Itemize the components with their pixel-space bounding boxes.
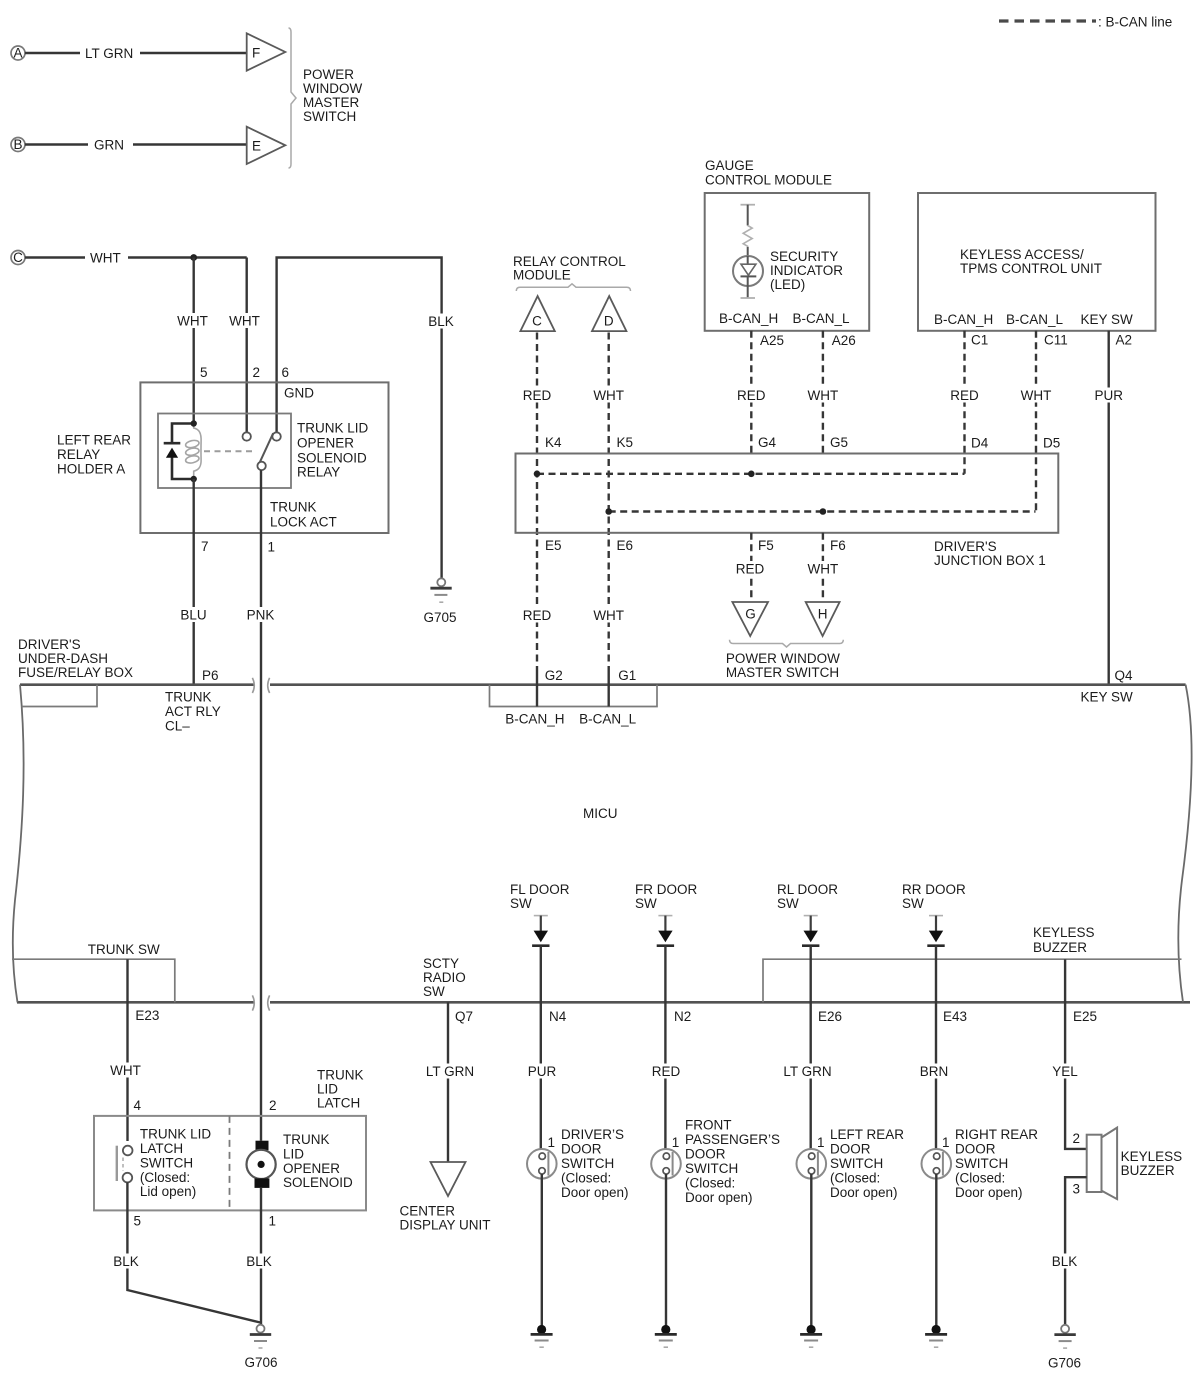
relay contact pin 2 — [243, 432, 251, 440]
brace power window master switch — [289, 28, 297, 168]
door switch input RL — [802, 916, 819, 946]
svg-text:Lid open): Lid open) — [140, 1184, 196, 1199]
label LEFT REAR RELAY HOLDER A — [57, 433, 131, 477]
svg-text:G2: G2 — [545, 668, 563, 683]
wire B-CAN WHT from triangle D to junction box K5 — [592, 333, 626, 673]
node dot relay coil bottom — [191, 476, 197, 482]
svg-text:HOLDER A: HOLDER A — [57, 462, 125, 477]
MICU top middle connector tab G — [490, 685, 658, 707]
MICU box bottom edge — [17, 1001, 1190, 1004]
svg-text:WHT: WHT — [808, 562, 839, 577]
wire B-CAN RED from triangle C to junction box K4 — [522, 333, 552, 673]
svg-text:LT GRN: LT GRN — [426, 1064, 474, 1079]
svg-text:G5: G5 — [830, 435, 848, 450]
svg-text:K4: K4 — [545, 435, 562, 450]
connector C — [11, 250, 25, 265]
ground left rear door switch — [800, 1325, 822, 1347]
label KEYLESS ACCESS TPMS CONTROL UNIT — [960, 247, 1102, 276]
svg-text:RELAY: RELAY — [57, 447, 100, 462]
svg-text:SW: SW — [902, 896, 924, 911]
svg-text:RED: RED — [736, 562, 765, 577]
label FL DOOR SW — [510, 882, 570, 911]
wire driver's door switch to ground — [541, 1174, 543, 1325]
wire B-CAN WHT A26 to G5 — [806, 331, 840, 454]
label TRUNK LID LATCH — [317, 1068, 364, 1111]
svg-text:CENTER: CENTER — [400, 1204, 456, 1219]
svg-text:DRIVER'S: DRIVER'S — [18, 637, 81, 652]
svg-text:MICU: MICU — [583, 806, 618, 821]
svg-text:G4: G4 — [758, 435, 777, 450]
label DRIVER'S DOOR SWITCH (Closed: Door open) — [561, 1127, 629, 1200]
svg-text:G: G — [745, 607, 756, 622]
svg-text:5: 5 — [200, 365, 208, 380]
wire right rear door switch to ground — [935, 1174, 937, 1325]
svg-text:DOOR: DOOR — [830, 1142, 871, 1157]
svg-text:LEFT REAR: LEFT REAR — [830, 1127, 904, 1142]
svg-text:BLU: BLU — [180, 608, 206, 623]
svg-text:LID: LID — [317, 1082, 338, 1097]
svg-text:TPMS CONTROL UNIT: TPMS CONTROL UNIT — [960, 261, 1102, 276]
svg-text:A25: A25 — [760, 333, 784, 348]
svg-text:FUSE/RELAY BOX: FUSE/RELAY BOX — [18, 665, 133, 680]
wire G1 solid stub — [608, 672, 610, 707]
svg-text:WHT: WHT — [808, 388, 839, 403]
wire B-CAN WHT F6 to triangle H — [806, 533, 840, 601]
svg-text:(LED): (LED) — [770, 277, 805, 292]
svg-text:KEYLESS ACCESS/: KEYLESS ACCESS/ — [960, 247, 1084, 262]
label POWER WINDOW MASTER SWITCH bottom — [726, 651, 840, 680]
wire PUR N4 to driver's door switch — [527, 946, 557, 1154]
svg-text:B: B — [13, 137, 22, 152]
svg-text:CL–: CL– — [165, 719, 190, 734]
svg-text:MASTER SWITCH: MASTER SWITCH — [726, 665, 839, 680]
svg-text:DISPLAY UNIT: DISPLAY UNIT — [400, 1218, 491, 1233]
wire B-CAN RED A25 to G4 — [736, 331, 766, 454]
svg-text:SWITCH: SWITCH — [140, 1155, 193, 1170]
right rear door switch SW4 — [922, 1149, 952, 1179]
svg-text:F6: F6 — [830, 538, 846, 553]
wire PNK relay pin 1 through MICU to solenoid — [245, 470, 277, 1141]
node junction dot on C wire — [190, 254, 197, 261]
svg-text:1: 1 — [548, 1135, 556, 1150]
svg-text:RED: RED — [737, 388, 766, 403]
svg-text:2: 2 — [253, 365, 261, 380]
svg-text:BLK: BLK — [1052, 1254, 1078, 1269]
wire RED N2 to front passenger's door switch — [651, 946, 681, 1154]
left rear door switch SW3 — [797, 1149, 827, 1179]
svg-text:D4: D4 — [971, 436, 989, 451]
door switch input RR — [927, 916, 944, 946]
svg-text:CONTROL MODULE: CONTROL MODULE — [705, 173, 832, 188]
svg-text:C11: C11 — [1044, 333, 1068, 348]
label GAUGE CONTROL MODULE — [705, 158, 832, 188]
svg-text:WHT: WHT — [177, 314, 208, 329]
svg-text:SW: SW — [510, 896, 532, 911]
svg-text:F: F — [252, 46, 260, 61]
svg-text:D: D — [604, 314, 614, 329]
svg-text:B-CAN_H: B-CAN_H — [505, 712, 564, 727]
terminal triangle G — [732, 602, 768, 636]
svg-text:SW: SW — [423, 984, 445, 999]
svg-text:A: A — [13, 46, 22, 61]
svg-text:KEY SW: KEY SW — [1081, 690, 1134, 705]
svg-text:E25: E25 — [1073, 1009, 1097, 1024]
svg-text:LATCH: LATCH — [317, 1096, 360, 1111]
svg-text:FL DOOR: FL DOOR — [510, 882, 570, 897]
wire G2 solid stub — [536, 672, 538, 707]
bracket over power window master switch — [730, 640, 844, 647]
svg-text:TRUNK: TRUNK — [270, 500, 317, 515]
svg-text:INDICATOR: INDICATOR — [770, 263, 843, 278]
svg-text:DOOR: DOOR — [955, 1142, 996, 1157]
label RL DOOR SW — [777, 882, 838, 911]
ground G706 right — [1048, 1325, 1081, 1371]
svg-text:GRN: GRN — [94, 138, 124, 153]
svg-text:RED: RED — [523, 608, 552, 623]
svg-text:E23: E23 — [135, 1008, 159, 1023]
diode D1 across relay coil — [164, 443, 181, 458]
connector B — [11, 137, 25, 152]
svg-text:SCTY: SCTY — [423, 956, 459, 971]
driver's door switch SW1 — [527, 1149, 557, 1179]
svg-text:KEY SW: KEY SW — [1081, 312, 1134, 327]
MICU left wavy edge — [13, 685, 24, 1003]
resistor R1 security indicator — [741, 205, 756, 247]
label LEFT REAR DOOR SWITCH (Closed: Door open) — [830, 1127, 904, 1200]
svg-text:LATCH: LATCH — [140, 1141, 183, 1156]
node dot relay coil top — [191, 420, 197, 426]
svg-text:C: C — [532, 314, 542, 329]
svg-text:7: 7 — [201, 539, 209, 554]
wire BLU relay pin 7 to MICU P6 — [179, 479, 209, 685]
svg-text:POWER: POWER — [303, 67, 354, 82]
svg-text:1: 1 — [672, 1135, 680, 1150]
svg-text:5: 5 — [134, 1214, 142, 1229]
svg-text:N2: N2 — [674, 1009, 691, 1024]
svg-text:G706: G706 — [1048, 1356, 1081, 1371]
svg-text:E43: E43 — [943, 1009, 967, 1024]
svg-text:PASSENGER’S: PASSENGER’S — [685, 1132, 780, 1147]
MICU top left connector tab — [22, 685, 98, 707]
node dot G5 bus — [820, 508, 827, 515]
svg-text:E6: E6 — [617, 538, 634, 553]
terminal triangle D — [592, 296, 626, 331]
svg-text:LT GRN: LT GRN — [85, 46, 133, 61]
svg-text:B-CAN_L: B-CAN_L — [579, 712, 637, 727]
wire BLK latch switch to G706 — [111, 1182, 260, 1322]
svg-text:E26: E26 — [818, 1009, 842, 1024]
svg-text:WHT: WHT — [110, 1063, 141, 1078]
label SECURITY INDICATOR (LED) — [770, 249, 843, 292]
wire B-CAN RED F5 to triangle G — [735, 533, 765, 601]
svg-text:MODULE: MODULE — [513, 268, 571, 283]
svg-text:LID: LID — [283, 1146, 304, 1161]
svg-text:ACT RLY: ACT RLY — [165, 704, 221, 719]
wire WHT to relay pin 2 — [228, 258, 262, 433]
wire BLK keyless buzzer to G706 — [1050, 1177, 1087, 1325]
svg-text:B-CAN_H: B-CAN_H — [934, 312, 993, 327]
ground front passenger's door switch — [655, 1325, 677, 1347]
wire B GRN — [25, 138, 247, 153]
svg-text:3: 3 — [1073, 1182, 1081, 1197]
label KEYLESS BUZZER micu — [1033, 925, 1095, 955]
svg-text:TRUNK LID: TRUNK LID — [297, 421, 369, 436]
trunk lid opener solenoid M1 — [247, 1141, 276, 1188]
svg-text:SW: SW — [777, 896, 799, 911]
label TRUNK LID OPENER SOLENOID RELAY — [297, 421, 369, 480]
svg-text:C1: C1 — [971, 333, 988, 348]
svg-text:Door open): Door open) — [561, 1185, 629, 1200]
svg-text:BLK: BLK — [246, 1254, 272, 1269]
svg-text:SWITCH: SWITCH — [303, 109, 356, 124]
svg-text:SW: SW — [635, 896, 657, 911]
svg-text:K5: K5 — [617, 435, 634, 450]
svg-text:E: E — [252, 139, 261, 154]
svg-text:RED: RED — [652, 1064, 681, 1079]
wire B-CAN RED C1 to D4 — [950, 331, 980, 474]
svg-text:RED: RED — [523, 388, 552, 403]
wire trunk sw E23 to latch switch — [126, 959, 128, 1141]
wire A LT GRN — [25, 46, 247, 61]
center display unit triangle — [431, 1162, 466, 1196]
label WHT E23 wire — [109, 1063, 143, 1078]
svg-text:Door open): Door open) — [685, 1190, 753, 1205]
svg-text:BLK: BLK — [113, 1254, 139, 1269]
label CENTER DISPLAY UNIT — [400, 1204, 491, 1233]
svg-text:FR DOOR: FR DOOR — [635, 882, 697, 897]
wire B-CAN WHT C11 to D5 — [1019, 331, 1053, 512]
relay switch blade — [260, 433, 273, 462]
svg-text:WHT: WHT — [593, 388, 624, 403]
wire BRN E43 to right rear door switch — [918, 946, 950, 1154]
connector pass-through marks PNK bottom edge — [252, 995, 269, 1010]
label RIGHT REAR DOOR SWITCH (Closed: Door open) — [955, 1127, 1038, 1200]
label DRIVER'S UNDER-DASH FUSE/RELAY BOX — [18, 637, 133, 680]
wire LT GRN E26 to left rear door switch — [783, 946, 831, 1154]
wire C WHT horizontal — [25, 251, 247, 266]
wire B-CAN upper bus — [537, 473, 965, 475]
svg-text:D5: D5 — [1043, 436, 1060, 451]
svg-text:KEYLESS: KEYLESS — [1121, 1149, 1183, 1164]
MICU box top edge — [20, 683, 1186, 686]
keyless buzzer BZ1 speaker — [1087, 1128, 1117, 1200]
svg-text:BLK: BLK — [428, 314, 454, 329]
svg-text:RED: RED — [950, 388, 979, 403]
terminal triangle H — [806, 602, 840, 636]
svg-text:2: 2 — [269, 1098, 277, 1113]
svg-text:1: 1 — [268, 540, 276, 555]
svg-text:PUR: PUR — [528, 1064, 557, 1079]
wire LT GRN Q7 to center display unit — [426, 1002, 474, 1162]
svg-text:G706: G706 — [244, 1355, 277, 1370]
label FRONT PASSENGER'S DOOR SWITCH (Closed: Door open) — [685, 1118, 780, 1206]
connector pass-through marks PNK top edge — [252, 678, 269, 693]
trunk lid latch box — [94, 1116, 366, 1211]
svg-text:KEYLESS: KEYLESS — [1033, 925, 1095, 940]
svg-text:SECURITY: SECURITY — [770, 249, 838, 264]
svg-text:RADIO: RADIO — [423, 970, 466, 985]
svg-text:B-CAN_L: B-CAN_L — [793, 311, 851, 326]
svg-text:RR DOOR: RR DOOR — [902, 882, 966, 897]
svg-text:WINDOW: WINDOW — [303, 81, 362, 96]
terminal triangle F — [247, 33, 286, 70]
svg-text:H: H — [818, 607, 828, 622]
terminal triangle E — [247, 127, 286, 164]
relay common contact — [257, 462, 265, 470]
front passenger's door switch SW2 — [651, 1149, 681, 1179]
label FR DOOR SW — [635, 882, 697, 911]
label TRUNK LOCK ACT — [270, 500, 337, 530]
svg-text:N4: N4 — [549, 1009, 567, 1024]
label RR DOOR SW — [902, 882, 966, 911]
svg-text:DOOR: DOOR — [685, 1147, 726, 1162]
wire front passenger's door switch to ground — [665, 1174, 667, 1325]
svg-text:SWITCH: SWITCH — [685, 1161, 738, 1176]
relay coil L1 — [194, 424, 201, 480]
svg-text:RL DOOR: RL DOOR — [777, 882, 838, 897]
wire BLK solenoid to G706 — [244, 1188, 274, 1325]
svg-text:B-CAN_L: B-CAN_L — [1006, 312, 1064, 327]
svg-text:Q7: Q7 — [455, 1009, 473, 1024]
svg-text:POWER WINDOW: POWER WINDOW — [726, 651, 840, 666]
label KEYLESS BUZZER right — [1121, 1149, 1183, 1178]
ground G706 left — [244, 1325, 277, 1370]
svg-text:F5: F5 — [758, 538, 774, 553]
wire WHT to relay pin 5 — [176, 258, 210, 424]
svg-text:G1: G1 — [618, 668, 636, 683]
svg-text:BUZZER: BUZZER — [1033, 940, 1087, 955]
driver's junction box 1 — [516, 454, 1059, 533]
MICU bottom left connector tab E — [12, 959, 175, 1002]
svg-text:TRUNK: TRUNK — [165, 690, 212, 705]
svg-text:2: 2 — [1073, 1131, 1081, 1146]
connector A — [11, 46, 25, 61]
svg-text:OPENER: OPENER — [283, 1161, 340, 1176]
svg-text:WHT: WHT — [229, 314, 260, 329]
svg-text:TRUNK: TRUNK — [283, 1132, 330, 1147]
wire YEL E25 to keyless buzzer — [1050, 959, 1087, 1149]
svg-text:JUNCTION BOX 1: JUNCTION BOX 1 — [934, 553, 1046, 568]
svg-text:B-CAN_H: B-CAN_H — [719, 311, 778, 326]
MICU bottom right connector tab — [763, 959, 1182, 1002]
ground right rear door switch — [925, 1325, 947, 1347]
svg-text:UNDER-DASH: UNDER-DASH — [18, 651, 108, 666]
node dot K4 bus — [534, 471, 541, 478]
node dot K5 bus — [605, 508, 612, 515]
gauge control module box — [705, 193, 870, 331]
wire BLK relay pin 6 to ground G705 — [277, 258, 456, 578]
svg-text:SWITCH: SWITCH — [561, 1156, 614, 1171]
label TRUNK ACT RLY CL- — [165, 690, 221, 734]
svg-text:WHT: WHT — [593, 608, 624, 623]
svg-text:GND: GND — [284, 386, 314, 401]
label WHT on G1 wire — [592, 608, 626, 624]
svg-text:SWITCH: SWITCH — [955, 1156, 1008, 1171]
trunk lid latch switch contacts — [117, 1146, 133, 1183]
wire left rear door switch to ground — [810, 1174, 812, 1325]
svg-text:(Closed:: (Closed: — [830, 1171, 880, 1186]
svg-text:G705: G705 — [423, 610, 456, 625]
ground G705 — [423, 578, 456, 625]
node dot G4 bus — [748, 471, 755, 478]
label TRUNK LID LATCH SWITCH (Closed: Lid open) — [140, 1127, 212, 1200]
svg-text:DRIVER'S: DRIVER'S — [934, 539, 997, 554]
relay U1 trunk lid opener solenoid relay box — [158, 414, 291, 489]
svg-text:P6: P6 — [202, 668, 219, 683]
svg-text:C: C — [13, 250, 23, 265]
svg-text:Door open): Door open) — [830, 1185, 898, 1200]
svg-text:TRUNK SW: TRUNK SW — [88, 942, 160, 957]
svg-text:YEL: YEL — [1052, 1064, 1078, 1079]
svg-text:MASTER: MASTER — [303, 95, 360, 110]
svg-text:LEFT REAR: LEFT REAR — [57, 433, 131, 448]
svg-text:DOOR: DOOR — [561, 1142, 602, 1157]
svg-text:SOLENOID: SOLENOID — [283, 1175, 353, 1190]
svg-text:6: 6 — [282, 365, 290, 380]
svg-text:: B-CAN line: : B-CAN line — [1098, 15, 1172, 30]
keyless access TPMS control unit box — [918, 193, 1156, 331]
wire B-CAN lower bus — [609, 510, 1036, 512]
svg-text:A26: A26 — [832, 333, 856, 348]
svg-text:OPENER: OPENER — [297, 436, 354, 451]
LED security indicator — [733, 247, 763, 298]
svg-text:1: 1 — [269, 1214, 277, 1229]
svg-text:SWITCH: SWITCH — [830, 1156, 883, 1171]
svg-text:(Closed:: (Closed: — [685, 1176, 735, 1191]
svg-text:SOLENOID: SOLENOID — [297, 450, 367, 465]
label RED on G2 wire — [522, 608, 552, 624]
svg-text:WHT: WHT — [90, 251, 121, 266]
wire PUR KEY SW A2 to MICU Q4 — [1094, 331, 1124, 685]
svg-text:LT GRN: LT GRN — [783, 1064, 831, 1079]
MICU right wavy edge — [1178, 685, 1191, 1003]
svg-text:E5: E5 — [545, 538, 562, 553]
terminal triangle C — [520, 296, 554, 331]
svg-text:DRIVER’S: DRIVER’S — [561, 1127, 624, 1142]
relay coil branch wiring — [172, 424, 194, 480]
label TRUNK LID OPENER SOLENOID — [283, 1132, 353, 1190]
label POWER WINDOW MASTER SWITCH — [303, 67, 362, 124]
legend B-CAN line — [999, 15, 1172, 30]
svg-text:(Closed:: (Closed: — [561, 1171, 611, 1186]
door switch input FL — [532, 916, 549, 946]
svg-text:PNK: PNK — [247, 608, 275, 623]
svg-text:RELAY: RELAY — [297, 465, 340, 480]
svg-text:A2: A2 — [1116, 333, 1133, 348]
ground driver's door switch — [531, 1325, 553, 1347]
svg-text:Q4: Q4 — [1115, 668, 1134, 683]
svg-text:1: 1 — [817, 1135, 825, 1150]
relay holder box — [140, 382, 388, 533]
label RELAY CONTROL MODULE — [513, 254, 626, 283]
dashed actuation link — [204, 450, 256, 452]
svg-text:TRUNK LID: TRUNK LID — [140, 1127, 212, 1142]
door switch input FR — [657, 916, 674, 946]
svg-text:(Closed:: (Closed: — [140, 1170, 190, 1185]
svg-text:1: 1 — [942, 1135, 950, 1150]
svg-text:TRUNK: TRUNK — [317, 1068, 364, 1083]
label DRIVER'S JUNCTION BOX 1 — [934, 539, 1046, 568]
relay contact pin 6 — [272, 432, 280, 440]
label SCTY RADIO SW — [423, 956, 466, 999]
svg-text:LOCK ACT: LOCK ACT — [270, 515, 337, 530]
svg-text:4: 4 — [134, 1098, 142, 1113]
svg-text:Door open): Door open) — [955, 1185, 1023, 1200]
svg-text:FRONT: FRONT — [685, 1118, 732, 1133]
svg-text:BUZZER: BUZZER — [1121, 1163, 1175, 1178]
bracket under relay control module — [516, 284, 630, 291]
svg-text:GAUGE: GAUGE — [705, 158, 754, 173]
